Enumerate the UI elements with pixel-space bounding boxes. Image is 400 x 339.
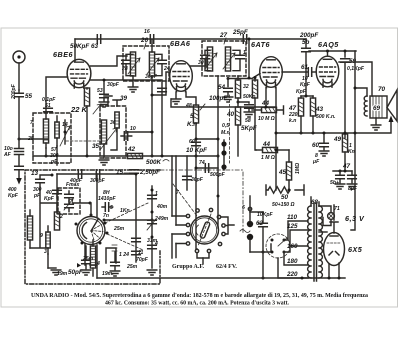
svg-text:1 M Ω: 1 M Ω	[261, 155, 275, 161]
capacitor C47a 8uF	[335, 163, 350, 189]
capacitor C63	[70, 35, 101, 50]
bottom bus verticals	[90, 265, 341, 280]
svg-text:6BA6: 6BA6	[170, 39, 191, 48]
ground IF1	[128, 87, 138, 92]
wires gang2 left	[172, 216, 186, 244]
svg-text:5: 5	[190, 113, 194, 120]
tube 6BA6	[170, 61, 193, 92]
svg-text:μF: μF	[312, 159, 320, 165]
tube 6X5 rectifier	[324, 233, 345, 279]
svg-text:44: 44	[262, 141, 271, 148]
svg-text:467 kc. Consumo: 35 watt, c: 467 kc. Consumo: 35 watt, cc. 60 mA, ca.…	[105, 301, 289, 307]
svg-text:42: 42	[127, 146, 136, 153]
svg-text:1 24: 1 24	[119, 252, 129, 258]
svg-text:K.n: K.n	[187, 121, 197, 128]
svg-text:49: 49	[333, 136, 342, 143]
capacitor C74	[195, 160, 226, 178]
junction dots AVC	[45, 155, 198, 158]
svg-text:55: 55	[25, 93, 33, 100]
junction dots on vertical	[217, 155, 220, 198]
svg-text:50pF: 50pF	[68, 269, 83, 276]
wire B+ to output transformer	[354, 87, 368, 97]
svg-text:300pF: 300pF	[90, 178, 106, 184]
capacitor C61 grid 10KpF	[282, 64, 316, 88]
label 400 KpF	[7, 187, 19, 199]
svg-text:5: 5	[110, 205, 113, 211]
capacitor C50a 50pF	[68, 246, 91, 276]
svg-text:1410pF: 1410pF	[98, 196, 116, 202]
svg-text:7n: 7n	[103, 213, 109, 219]
band switch S1	[77, 217, 105, 245]
svg-text:40m: 40m	[156, 204, 168, 210]
tube 6BE6	[67, 59, 91, 88]
osc coil 25	[27, 116, 59, 146]
svg-text:35: 35	[92, 143, 100, 150]
wire mixer link	[126, 131, 154, 134]
wire plate 6BA6 to IF2	[191, 57, 207, 66]
ground output transformer	[371, 118, 381, 130]
padder link wire	[73, 202, 92, 205]
capacitor C53	[97, 80, 120, 107]
osc trim cap 7	[30, 113, 49, 148]
resistor R2	[54, 212, 63, 230]
voltage selector	[266, 234, 290, 258]
capacitor top mid	[144, 29, 154, 52]
svg-text:60: 60	[312, 142, 320, 149]
wire transformer secondary top	[319, 205, 334, 220]
power transformer T68	[308, 197, 323, 281]
wire switch top	[90, 203, 92, 215]
ground padder chain	[147, 270, 157, 275]
tuning gang G2	[191, 214, 219, 246]
B+ rail right	[351, 51, 355, 230]
svg-text:10 KpF: 10 KpF	[186, 147, 207, 154]
wire antenna lower	[18, 97, 20, 178]
svg-text:10: 10	[130, 126, 136, 132]
svg-text:6AQ5: 6AQ5	[318, 40, 339, 49]
pilot lamp 71	[323, 206, 340, 226]
resistor R32	[243, 76, 258, 150]
wire grid left	[46, 77, 68, 113]
padder cap A	[148, 191, 158, 199]
svg-text:36: 36	[110, 120, 116, 126]
svg-text:6AT6: 6AT6	[251, 40, 271, 49]
svg-text:53: 53	[97, 88, 103, 94]
svg-text:10 M Ω: 10 M Ω	[258, 116, 275, 122]
wire 6X5 cathode top	[330, 222, 338, 233]
osc feed wire	[57, 170, 136, 184]
svg-text:13: 13	[31, 170, 39, 177]
svg-text:47: 47	[288, 105, 297, 112]
IF2 trim cap secondary	[233, 50, 246, 71]
AVC bus wire	[33, 155, 218, 157]
svg-text:Fmax: Fmax	[66, 182, 79, 188]
tube 6AQ5	[316, 56, 339, 87]
IF1 trim cap secondary	[155, 54, 170, 75]
wire 6AQ5 plate top	[327, 51, 329, 56]
svg-text:4: 4	[154, 241, 158, 247]
IF transformer T27 box	[202, 41, 246, 76]
svg-text:47: 47	[342, 163, 351, 170]
IF1 secondary coil	[149, 52, 154, 76]
node wire caps 47	[333, 170, 352, 173]
svg-text:Gruppo A.F.: Gruppo A.F.	[172, 264, 204, 270]
svg-text:70: 70	[378, 86, 386, 93]
capacitor column C85	[132, 173, 141, 263]
svg-text:61: 61	[301, 64, 309, 71]
capacitor 30pF tuner	[183, 176, 204, 183]
wire gang2 right	[221, 217, 234, 234]
gang2 mech link	[173, 184, 197, 216]
band label 75m	[116, 169, 160, 176]
svg-text:KpF: KpF	[296, 89, 307, 95]
svg-text:KpF: KpF	[300, 82, 311, 88]
padder cap C	[136, 241, 158, 263]
antenna coil L2	[40, 226, 50, 255]
svg-text:6BE6: 6BE6	[53, 50, 73, 59]
B+ node bus	[275, 116, 394, 135]
svg-text:KpF: KpF	[44, 196, 55, 202]
IF1 trim cap primary	[121, 54, 133, 75]
svg-text:160: 160	[287, 243, 298, 250]
wire IF1 secondary to AVC	[151, 77, 154, 158]
resistor R43a	[288, 89, 307, 133]
capacitor C60 8uF	[312, 133, 329, 165]
svg-text:200pF: 200pF	[299, 32, 318, 39]
svg-text:6X5: 6X5	[348, 245, 363, 254]
wires osc coils	[30, 187, 57, 268]
ground cathode 6BA6	[171, 92, 181, 104]
svg-text:58: 58	[245, 118, 251, 124]
resistor R43b	[310, 96, 335, 133]
capacitor C55	[11, 83, 33, 100]
svg-text:25m: 25m	[113, 226, 125, 232]
IF2 trim cap primary	[198, 50, 210, 70]
wire 6AT6 cathode down	[275, 88, 277, 191]
dashed link IF2	[229, 95, 231, 163]
padder chain wire	[151, 186, 153, 268]
coil L36	[110, 112, 119, 128]
wire IF1 primary bottom	[132, 77, 134, 87]
antenna	[13, 51, 25, 63]
oscillator section dashed box	[25, 170, 160, 284]
svg-text:0,5: 0,5	[222, 123, 229, 129]
svg-text:125: 125	[287, 223, 298, 230]
svg-text:19m: 19m	[57, 271, 68, 277]
top B+ bus wire	[75, 38, 306, 40]
wire 43 top join	[301, 95, 313, 98]
wires RF box up	[104, 96, 121, 106]
wire antenna down	[18, 63, 20, 90]
wire 6AT6 diode	[265, 88, 267, 108]
svg-text:68: 68	[311, 199, 319, 206]
capacitor C58 5KpF	[237, 101, 257, 133]
IF2 primary coil	[207, 47, 212, 71]
svg-text:70pF: 70pF	[136, 257, 149, 263]
wire heater	[319, 231, 327, 233]
padder cap 2	[64, 199, 73, 212]
wire plate to output transformer	[339, 62, 372, 96]
svg-text:28: 28	[121, 66, 128, 72]
wire bus to padder	[262, 252, 264, 278]
resistor R49 1K	[333, 134, 355, 171]
svg-text:16: 16	[144, 29, 150, 35]
bottom bus wire	[97, 277, 345, 279]
svg-text:110: 110	[287, 214, 298, 221]
svg-text:25m: 25m	[126, 264, 138, 270]
svg-text:3: 3	[44, 249, 47, 255]
IF1 primary coil	[130, 52, 135, 76]
chassis dashed divider	[242, 172, 244, 234]
IF2 secondary coil	[225, 47, 230, 71]
svg-text:1: 1	[155, 191, 158, 197]
junction dot screen bus	[326, 50, 329, 53]
svg-text:500K: 500K	[146, 159, 162, 166]
svg-text:71: 71	[334, 206, 340, 212]
wire IF2 secondary to 6AT6	[228, 74, 260, 79]
svg-text:30pF: 30pF	[107, 82, 120, 88]
padder box Fmax	[58, 188, 80, 214]
tube 6AT6	[260, 57, 283, 88]
label 26	[140, 37, 149, 49]
wire trimmer to padder	[103, 219, 154, 222]
IF1 trimmer arrows	[128, 58, 159, 74]
svg-text:180: 180	[287, 258, 298, 265]
wire phono bottom	[250, 244, 271, 254]
svg-text:6: 6	[242, 205, 245, 211]
wire phono top	[248, 196, 263, 212]
screen bus wire	[309, 50, 356, 52]
coil form	[106, 245, 129, 263]
wire diode load	[195, 138, 220, 141]
svg-text:30pF: 30pF	[191, 177, 204, 183]
label Gruppo	[172, 264, 237, 270]
svg-text:30: 30	[198, 60, 204, 66]
label 57	[50, 147, 59, 165]
capacitor C62 10KpF	[256, 212, 273, 252]
switch contacts mid	[221, 140, 226, 170]
wire x97 drop	[96, 174, 98, 217]
svg-text:500 K.n.: 500 K.n.	[316, 114, 336, 120]
resistor R50 wirewound	[266, 185, 304, 208]
dashed link switch	[105, 203, 148, 250]
svg-text:5b+: 5b+	[330, 180, 339, 186]
output transformer T69	[364, 96, 387, 118]
wire IF2 bottom long vertical	[217, 76, 219, 228]
resistor R44b 1M	[256, 141, 289, 161]
svg-text:69: 69	[373, 105, 381, 112]
svg-text:60: 60	[189, 139, 195, 145]
svg-text:2,50pF: 2,50pF	[139, 169, 160, 176]
trimmer arrow RF box	[100, 128, 117, 150]
heater wire	[171, 99, 276, 109]
wire x57 branch	[53, 174, 62, 214]
svg-text:200pF: 200pF	[11, 83, 17, 100]
capacitor C13 300pF	[31, 170, 54, 199]
svg-text:AF: AF	[3, 152, 12, 158]
svg-text:49m: 49m	[157, 216, 169, 222]
junction dot screen	[103, 79, 106, 82]
svg-text:KpF: KpF	[8, 193, 19, 199]
svg-text:40: 40	[226, 111, 235, 118]
capacitor C54 100pF	[209, 77, 233, 102]
svg-text:48: 48	[185, 103, 192, 109]
svg-text:M.n: M.n	[221, 130, 230, 136]
svg-text:2: 2	[59, 214, 63, 220]
osc box dashed	[33, 113, 71, 163]
capacitor C56 200pF	[299, 32, 318, 96]
capacitor 25pF	[232, 29, 248, 43]
capacitor C59	[341, 50, 365, 139]
svg-text:100pF: 100pF	[209, 95, 227, 102]
svg-text:Kn: Kn	[348, 149, 355, 155]
IF2 trimmer arrows	[205, 53, 235, 69]
oscillator coil L4	[90, 240, 100, 276]
switch pins	[75, 214, 109, 245]
svg-text:45: 45	[278, 169, 287, 176]
label 27	[219, 32, 228, 44]
svg-text:54: 54	[218, 84, 226, 91]
svg-text:8μF: 8μF	[348, 186, 358, 192]
resistor R42 500K	[127, 146, 169, 166]
svg-text:500pF: 500pF	[210, 172, 226, 178]
resistor R40 0.5M	[221, 107, 241, 156]
resistor R38 50K	[235, 76, 255, 107]
svg-text:22 K: 22 K	[70, 105, 88, 114]
capacitor C47b 8uF	[330, 171, 358, 192]
svg-text:50Kn: 50Kn	[243, 94, 255, 100]
svg-text:1: 1	[243, 50, 246, 56]
svg-text:32: 32	[243, 84, 249, 90]
wire plate to IF1	[91, 56, 128, 66]
gang2 pins left	[186, 214, 189, 245]
wire x196 down	[196, 156, 197, 249]
svg-text:6,3 V: 6,3 V	[345, 214, 365, 223]
svg-text:50: 50	[281, 194, 289, 201]
wire AVC drop	[248, 38, 251, 80]
wire osc box bottom	[46, 146, 57, 165]
svg-text:10KpF: 10KpF	[257, 212, 273, 218]
switch pin drops	[85, 244, 97, 265]
resistor R14	[60, 120, 70, 146]
svg-text:15: 15	[116, 169, 124, 176]
padder cap B	[147, 216, 158, 230]
wires RF box down	[99, 128, 117, 165]
capacitor C51	[42, 97, 56, 112]
coil L35	[92, 120, 107, 150]
selector taps	[278, 221, 308, 278]
resistor R44 10M	[252, 100, 284, 122]
resistor R45 1M	[278, 150, 301, 190]
wire 6BA6 grid	[151, 72, 171, 97]
svg-text:74: 74	[199, 160, 205, 166]
svg-text:k.n: k.n	[289, 118, 296, 124]
arrow to tuner	[16, 178, 22, 185]
ground osc coil	[48, 268, 61, 275]
svg-text:50+150 Ω: 50+150 Ω	[272, 202, 295, 208]
resistor R48 5K	[185, 92, 205, 156]
svg-text:39: 39	[120, 95, 128, 102]
resistor R41 22K	[70, 88, 101, 156]
svg-text:UNDA RADIO - Mod. 54/5. Sup: UNDA RADIO - Mod. 54/5. Supereterodina a…	[31, 293, 368, 299]
padder cap 1	[44, 190, 73, 202]
capacitor C46 antenna series	[3, 138, 48, 170]
wire plate 6BE6	[74, 39, 76, 61]
antenna coil L1	[27, 210, 32, 248]
capacitor 10KpF	[186, 139, 207, 154]
gang2 pins right	[196, 208, 225, 245]
svg-text:43: 43	[315, 106, 324, 113]
speaker	[378, 86, 397, 121]
svg-text:24: 24	[163, 66, 170, 72]
RF coil box T35	[100, 106, 126, 158]
svg-text:0,1KpF: 0,1KpF	[347, 66, 365, 72]
svg-text:1MΩ: 1MΩ	[295, 163, 301, 174]
capacitor C50b 70pF	[110, 252, 137, 276]
IF transformer T26 box	[123, 46, 169, 81]
junction padder	[151, 189, 154, 239]
gang2 pins bottom	[195, 249, 210, 264]
wire screen right	[90, 80, 162, 156]
svg-text:25pF: 25pF	[232, 29, 248, 36]
oscillator trimmer cluster	[98, 190, 116, 219]
svg-text:62/4 FV.: 62/4 FV.	[216, 264, 237, 270]
vertical feed wires	[172, 156, 176, 258]
svg-text:pF: pF	[50, 159, 58, 165]
dashed AVC link	[66, 140, 100, 142]
capacitor C10	[121, 126, 136, 140]
svg-text:50KpF 63: 50KpF 63	[70, 43, 98, 50]
wire x187	[186, 156, 188, 190]
svg-text:26: 26	[140, 37, 149, 44]
chassis dashed extension	[160, 169, 243, 171]
svg-text:220: 220	[286, 271, 298, 278]
svg-text:1Kn: 1Kn	[120, 208, 130, 214]
